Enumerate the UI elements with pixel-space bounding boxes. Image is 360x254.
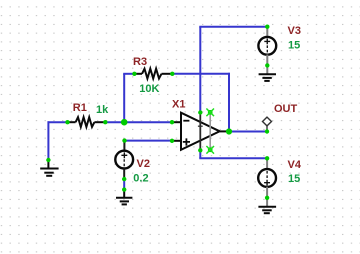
wire feedback top right — [172, 73, 230, 75]
ground below V2 — [116, 190, 132, 205]
output lead — [220, 130, 229, 132]
node dot R1 right — [103, 120, 107, 124]
op-amp X1 — [172, 112, 229, 150]
svg-text:OUT: OUT — [274, 103, 298, 115]
wire V2 to ground — [123, 179, 125, 190]
op-amp triangle body — [181, 113, 220, 150]
node dot left ground — [46, 158, 50, 162]
resistor R1 — [68, 117, 106, 127]
ground below V4 — [258, 198, 276, 213]
ground left — [40, 160, 58, 176]
minus symbol — [183, 120, 189, 122]
svg-text:10K: 10K — [139, 83, 159, 95]
svg-text:V3: V3 — [288, 25, 301, 37]
wire V- horizontal to V4 — [199, 157, 267, 159]
voltage source V3 — [258, 27, 276, 66]
svg-text:15: 15 — [288, 40, 300, 52]
svg-text:0.2: 0.2 — [133, 173, 148, 185]
pin lead noninverting input — [172, 140, 181, 142]
node dot V- pin — [198, 148, 202, 152]
node dot R3 right — [170, 72, 174, 76]
svg-text:1k: 1k — [96, 104, 109, 116]
wire V- vertical — [199, 150, 201, 158]
node dot V2 ground — [122, 187, 126, 191]
wire junction to op-amp inverting input — [124, 121, 172, 123]
wire input left horizontal — [48, 121, 68, 123]
wire V+ top horizontal to V3 — [199, 26, 267, 28]
node dot V4 top — [265, 156, 269, 160]
voltage source V2 — [115, 141, 133, 180]
OUT pin diamond — [263, 117, 272, 131]
svg-text:X1: X1 — [172, 99, 185, 111]
node dot R1 left — [65, 120, 69, 124]
wire input left vertical to ground — [47, 121, 49, 160]
svg-text:R1: R1 — [73, 102, 87, 114]
junction node input — [121, 119, 128, 126]
offset pin line — [209, 112, 211, 150]
node dot V4 ground — [265, 196, 269, 200]
resistor R3 — [134, 69, 172, 79]
svg-text:15: 15 — [288, 173, 300, 185]
junction node output — [226, 128, 232, 134]
plus polarity — [121, 152, 127, 158]
dash axis — [266, 45, 268, 52]
ground below V3 — [259, 65, 276, 81]
pin lead inverting input — [172, 121, 181, 123]
wire feedback top left — [123, 73, 134, 75]
node dot V3 ground — [265, 63, 269, 67]
node dot V2 bottom — [122, 177, 126, 181]
wire feedback vertical right — [228, 73, 230, 132]
plus polarity — [264, 39, 270, 45]
svg-text:R3: R3 — [133, 56, 147, 68]
node dot V3 top — [265, 25, 269, 29]
dash axis — [123, 159, 125, 166]
power pin line V+ V- — [199, 113, 201, 151]
unconnected pin marker bottom — [206, 146, 214, 154]
voltage source V4 — [258, 158, 276, 198]
svg-text:V4: V4 — [288, 159, 302, 171]
wire V+ vertical — [199, 27, 201, 113]
plus polarity — [264, 180, 270, 186]
node dot inverting input — [170, 120, 174, 124]
node dot OUT — [265, 129, 269, 133]
node dot V2 top — [122, 138, 126, 142]
wire R1 to junction — [105, 121, 124, 123]
node dot R3 left — [132, 72, 136, 76]
unconnected pin marker top — [206, 109, 214, 117]
dash axis — [266, 171, 268, 178]
wire output to OUT pin — [229, 131, 267, 133]
wire feedback vertical left — [123, 74, 125, 122]
plus mark at V+ pin — [198, 125, 203, 127]
svg-text:V2: V2 — [137, 158, 150, 170]
wire V2 to op-amp noninverting input — [125, 140, 173, 142]
plus symbol — [183, 138, 190, 145]
node dot noninverting input — [170, 139, 174, 143]
node dot V+ pin — [198, 110, 202, 114]
